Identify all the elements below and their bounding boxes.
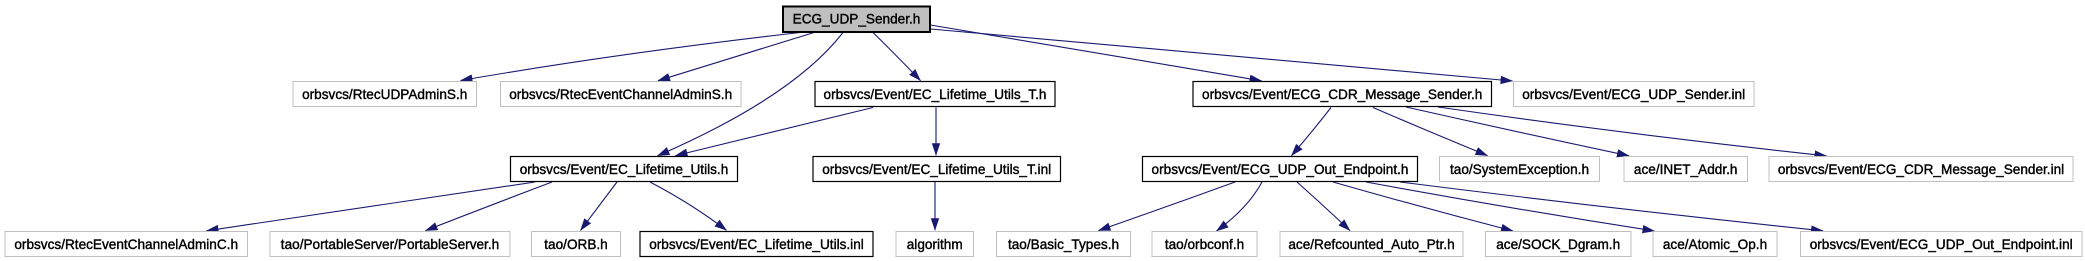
edge orbsvcs/Event/ECG_CDR_Message_Sender.h -> orbsvcs/Event/ECG_CDR_Message_Sender.inl bbox=[1438, 107, 1827, 156]
edge orbsvcs/Event/EC_Lifetime_Utils.h -> tao/PortableServer/PortableServer.h bbox=[426, 182, 553, 231]
svg-text:tao/ORB.h: tao/ORB.h bbox=[544, 237, 607, 252]
svg-text:algorithm: algorithm bbox=[907, 237, 963, 252]
edge orbsvcs/Event/ECG_UDP_Out_Endpoint.h -> tao/orbconf.h bbox=[1217, 182, 1263, 231]
edge ECG_UDP_Sender.h -> orbsvcs/RtecUDPAdminS.h bbox=[461, 33, 801, 81]
edge orbsvcs/Event/EC_Lifetime_Utils.h -> orbsvcs/RtecEventChannelAdminC.h bbox=[207, 182, 536, 231]
node orbsvcs/Event/ECG_CDR_Message_Sender.h bbox=[1193, 82, 1492, 107]
node ace/Refcounted_Auto_Ptr.h bbox=[1280, 232, 1463, 257]
svg-text:ace/INET_Addr.h: ace/INET_Addr.h bbox=[1634, 162, 1738, 177]
edge orbsvcs/Event/EC_Lifetime_Utils_T.h -> orbsvcs/Event/EC_Lifetime_Utils_T.inl bbox=[935, 108, 937, 156]
svg-text:orbsvcs/Event/EC_Lifetime_Util: orbsvcs/Event/EC_Lifetime_Utils.h bbox=[520, 162, 729, 177]
svg-text:orbsvcs/Event/EC_Lifetime_Util: orbsvcs/Event/EC_Lifetime_Utils_T.inl bbox=[822, 162, 1051, 177]
node tao/orbconf.h bbox=[1152, 232, 1257, 257]
svg-text:tao/orbconf.h: tao/orbconf.h bbox=[1165, 237, 1244, 252]
svg-text:ace/Refcounted_Auto_Ptr.h: ace/Refcounted_Auto_Ptr.h bbox=[1288, 237, 1454, 252]
edge orbsvcs/Event/ECG_UDP_Out_Endpoint.h -> orbsvcs/Event/ECG_UDP_Out_Endpoint.inl bbox=[1400, 182, 1823, 231]
node tao/SystemException.h bbox=[1440, 157, 1600, 182]
edge orbsvcs/Event/ECG_UDP_Out_Endpoint.h -> ace/Refcounted_Auto_Ptr.h bbox=[1297, 182, 1350, 231]
edge ECG_UDP_Sender.h -> orbsvcs/Event/EC_Lifetime_Utils.h bbox=[658, 33, 844, 156]
svg-text:orbsvcs/Event/EC_Lifetime_Util: orbsvcs/Event/EC_Lifetime_Utils_T.h bbox=[824, 87, 1047, 102]
edge orbsvcs/Event/ECG_UDP_Out_Endpoint.h -> ace/Atomic_Op.h bbox=[1366, 182, 1655, 231]
svg-text:orbsvcs/RtecEventChannelAdminS: orbsvcs/RtecEventChannelAdminS.h bbox=[509, 87, 732, 102]
edge orbsvcs/Event/EC_Lifetime_Utils.h -> orbsvcs/Event/EC_Lifetime_Utils.inl bbox=[650, 182, 727, 230]
edge ECG_UDP_Sender.h -> orbsvcs/RtecEventChannelAdminS.h bbox=[658, 33, 814, 81]
node orbsvcs/Event/ECG_UDP_Out_Endpoint.inl bbox=[1801, 232, 2083, 257]
svg-text:tao/Basic_Types.h: tao/Basic_Types.h bbox=[1008, 237, 1119, 252]
svg-text:ECG_UDP_Sender.h: ECG_UDP_Sender.h bbox=[793, 12, 921, 27]
node orbsvcs/Event/EC_Lifetime_Utils_T.inl bbox=[813, 157, 1061, 182]
svg-text:orbsvcs/RtecEventChannelAdminC: orbsvcs/RtecEventChannelAdminC.h bbox=[14, 237, 238, 252]
edge orbsvcs/Event/EC_Lifetime_Utils.h -> tao/ORB.h bbox=[581, 182, 618, 230]
svg-text:tao/SystemException.h: tao/SystemException.h bbox=[1450, 162, 1589, 177]
edge orbsvcs/Event/ECG_CDR_Message_Sender.h -> orbsvcs/Event/ECG_UDP_Out_Endpoint.h bbox=[1292, 108, 1332, 156]
node algorithm bbox=[896, 232, 974, 257]
edge ECG_UDP_Sender.h -> orbsvcs/Event/ECG_CDR_Message_Sender.h bbox=[931, 25, 1262, 81]
node orbsvcs/Event/EC_Lifetime_Utils.inl bbox=[640, 232, 873, 257]
svg-text:tao/PortableServer/PortableSer: tao/PortableServer/PortableServer.h bbox=[281, 237, 499, 252]
edge orbsvcs/Event/ECG_CDR_Message_Sender.h -> ace/INET_Addr.h bbox=[1406, 107, 1629, 156]
node tao/ORB.h bbox=[532, 232, 621, 257]
node tao/PortableServer/PortableServer.h bbox=[270, 232, 510, 257]
svg-text:orbsvcs/Event/ECG_UDP_Out_Endp: orbsvcs/Event/ECG_UDP_Out_Endpoint.inl bbox=[1810, 237, 2073, 252]
svg-text:ace/SOCK_Dgram.h: ace/SOCK_Dgram.h bbox=[1496, 237, 1620, 252]
svg-text:orbsvcs/Event/ECG_CDR_Message_: orbsvcs/Event/ECG_CDR_Message_Sender.h bbox=[1202, 87, 1482, 102]
node orbsvcs/Event/ECG_UDP_Sender.inl bbox=[1514, 82, 1755, 107]
svg-text:orbsvcs/Event/ECG_CDR_Message_: orbsvcs/Event/ECG_CDR_Message_Sender.inl bbox=[1778, 162, 2064, 177]
node orbsvcs/RtecUDPAdminS.h bbox=[293, 82, 477, 107]
edge orbsvcs/Event/ECG_CDR_Message_Sender.h -> tao/SystemException.h bbox=[1373, 108, 1488, 156]
edge ECG_UDP_Sender.h -> orbsvcs/Event/ECG_UDP_Sender.inl bbox=[931, 29, 1513, 81]
svg-text:orbsvcs/Event/ECG_UDP_Out_Endp: orbsvcs/Event/ECG_UDP_Out_Endpoint.h bbox=[1152, 162, 1409, 177]
node ace/SOCK_Dgram.h bbox=[1486, 232, 1632, 257]
node orbsvcs/Event/EC_Lifetime_Utils_T.h bbox=[815, 82, 1055, 107]
edge orbsvcs/Event/ECG_UDP_Out_Endpoint.h -> ace/SOCK_Dgram.h bbox=[1333, 182, 1513, 231]
node ECG_UDP_Sender.h (root) bbox=[783, 7, 930, 33]
svg-text:ace/Atomic_Op.h: ace/Atomic_Op.h bbox=[1663, 237, 1767, 252]
svg-text:orbsvcs/RtecUDPAdminS.h: orbsvcs/RtecUDPAdminS.h bbox=[302, 87, 467, 102]
node orbsvcs/Event/ECG_UDP_Out_Endpoint.h bbox=[1143, 157, 1418, 182]
node orbsvcs/RtecEventChannelAdminC.h bbox=[5, 232, 248, 257]
edge orbsvcs/Event/ECG_UDP_Out_Endpoint.h -> tao/Basic_Types.h bbox=[1099, 182, 1236, 231]
edge orbsvcs/Event/EC_Lifetime_Utils_T.h -> orbsvcs/Event/EC_Lifetime_Utils.h bbox=[676, 108, 874, 156]
edge ECG_UDP_Sender.h -> orbsvcs/Event/EC_Lifetime_Utils_T.h bbox=[873, 33, 921, 81]
svg-text:orbsvcs/Event/EC_Lifetime_Util: orbsvcs/Event/EC_Lifetime_Utils.inl bbox=[649, 237, 864, 252]
svg-text:orbsvcs/Event/ECG_UDP_Sender.i: orbsvcs/Event/ECG_UDP_Sender.inl bbox=[1522, 87, 1745, 102]
node ace/Atomic_Op.h bbox=[1653, 232, 1777, 257]
node orbsvcs/RtecEventChannelAdminS.h bbox=[501, 82, 742, 107]
node ace/INET_Addr.h bbox=[1624, 157, 1748, 182]
node orbsvcs/Event/ECG_CDR_Message_Sender.inl bbox=[1769, 157, 2073, 182]
node tao/Basic_Types.h bbox=[997, 232, 1131, 257]
edge orbsvcs/Event/EC_Lifetime_Utils_T.inl -> algorithm bbox=[934, 182, 936, 230]
node orbsvcs/Event/EC_Lifetime_Utils.h bbox=[511, 157, 738, 182]
